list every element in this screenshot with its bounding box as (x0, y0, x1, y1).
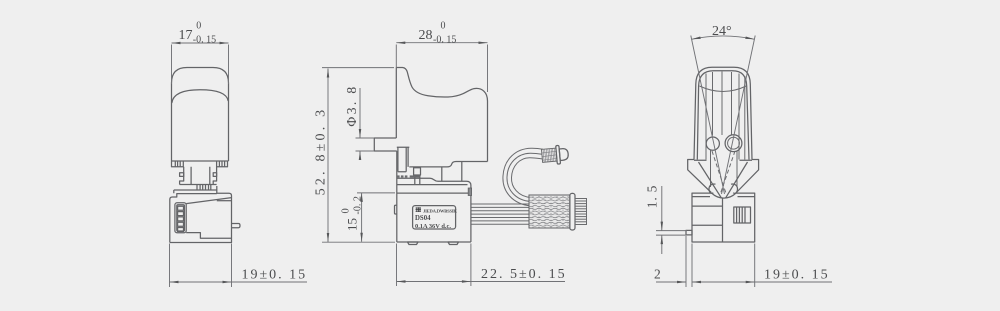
dim 52.8/15 extension bottom (322, 241, 395, 243)
svg-text:19±0. 15: 19±0. 15 (242, 268, 308, 283)
svg-text:24°: 24° (712, 24, 732, 39)
verticals under strip (415, 178, 420, 185)
small connector tip (559, 148, 568, 160)
inner sag arc (700, 86, 747, 92)
trigger left face (395, 68, 397, 139)
dim 15 ext top (357, 192, 395, 194)
trigger serration right block (217, 161, 228, 167)
trigger outline (left view) (172, 68, 229, 162)
body center divider (722, 198, 724, 242)
label logo block (416, 207, 422, 212)
dim 19 left ext lines (170, 244, 232, 288)
body right edge (470, 186, 472, 243)
small pocket box (414, 168, 421, 175)
dim 15 line (361, 193, 363, 242)
body second top line (692, 196, 755, 198)
dim 19 left arrows (170, 281, 232, 284)
body inner second line (217, 200, 232, 202)
trigger bottom edge (409, 162, 487, 167)
svg-text:0: 0 (441, 21, 446, 32)
dim 22.5 ext lines (397, 244, 471, 287)
dim 1.5 line (661, 186, 663, 254)
right clip dark tab (468, 188, 471, 196)
neck side walls (711, 151, 738, 188)
foot right (448, 242, 459, 245)
stem base plate (174, 185, 217, 191)
svg-text:1. 5: 1. 5 (645, 185, 660, 208)
wire eyelet right outer (725, 135, 742, 152)
svg-text:19±0. 15: 19±0. 15 (764, 268, 830, 283)
lid top line (397, 178, 471, 185)
body outline (left view) (170, 186, 232, 243)
right wing (736, 160, 758, 193)
rib dashes (397, 175, 400, 177)
bottom L-step (186, 233, 231, 239)
wire eyelet right inner (728, 137, 740, 149)
small connector flange (556, 145, 561, 164)
svg-text:22. 5±0. 15: 22. 5±0. 15 (481, 267, 567, 282)
connector inner column (177, 205, 185, 231)
pin comb (575, 199, 587, 225)
connector pins (178, 206, 184, 231)
left wing (688, 160, 712, 193)
hidden dashed left (712, 151, 726, 194)
right side tab (232, 224, 241, 228)
pocket U channel (397, 147, 410, 172)
dim 28 extension lines (396, 45, 487, 93)
LEFTVIEW (170, 68, 240, 243)
svg-text:2: 2 (654, 267, 661, 282)
dim 52.8 arrows (327, 69, 330, 243)
svg-text:0: 0 (196, 21, 201, 32)
stem left wall with notch (180, 167, 184, 185)
shelf lines (694, 159, 752, 161)
left small tab (686, 230, 692, 235)
sleeve end cap (570, 193, 575, 230)
small connector sleeve (541, 148, 557, 162)
dim 28 arrows (396, 41, 487, 44)
dim 15 arrows (360, 193, 363, 242)
svg-text:0: 0 (341, 208, 352, 213)
dim 17 extension lines (172, 45, 229, 85)
label plate (413, 206, 456, 229)
diagonal ledge line (186, 198, 231, 204)
dim 15 text (341, 196, 364, 231)
svg-text:Φ3. 8: Φ3. 8 (344, 84, 359, 126)
lid second line (397, 184, 468, 186)
ratchet ribbed box (197, 185, 211, 191)
dim 19 right ext lines (692, 244, 755, 288)
step verticals under trigger (442, 162, 462, 182)
body row lines (692, 206, 723, 225)
dim 19 right line (692, 281, 832, 283)
svg-text:-0. 2: -0. 2 (353, 196, 364, 214)
trigger inner arc (172, 90, 228, 103)
body bottom (397, 241, 471, 243)
wire loop strokes (503, 148, 543, 206)
dim 1.5 ext lines (656, 231, 687, 236)
dim phi3.8 arrows (359, 129, 362, 160)
svg-text:0.1A 36V d.c.: 0.1A 36V d.c. (415, 223, 451, 230)
dim 28 line (396, 42, 487, 44)
dim 19 right arrows (692, 281, 755, 284)
body left face (396, 151, 398, 242)
svg-text:-0. 15: -0. 15 (193, 35, 216, 46)
dim 2 arrow (677, 281, 686, 284)
dim 22.5 arrows (397, 280, 471, 283)
trigger outer shell (694, 67, 752, 159)
left clip (395, 205, 397, 214)
svg-text:-0. 15: -0. 15 (433, 35, 456, 46)
dim 22.5 line (397, 281, 566, 283)
spring V left (699, 162, 722, 198)
wire eyelet left (706, 137, 719, 150)
MIDVIEW (374, 68, 586, 245)
dim 19 left line (170, 281, 308, 283)
dim phi3.8 ext lines (356, 138, 375, 151)
trigger inner shell (697, 71, 749, 160)
hook left (709, 184, 716, 193)
trigger serration left block (172, 161, 184, 167)
dim 2 ext line (685, 236, 687, 287)
svg-text:DS04: DS04 (415, 215, 431, 222)
boss cylinder (374, 138, 397, 151)
hook right (731, 184, 738, 193)
stem right wall with notch (213, 167, 216, 185)
RIGHTVIEW (686, 67, 759, 242)
dim 2 line (656, 281, 686, 283)
svg-text:52. 8±0. 3: 52. 8±0. 3 (314, 107, 329, 196)
dim phi3.8 line (359, 88, 361, 159)
dim 1.5 arrows (661, 222, 664, 245)
body top separation (397, 192, 471, 194)
spring V right (726, 162, 748, 198)
dim 24 arrows (691, 37, 754, 40)
svg-text:JIEDA.DWBSSIK: JIEDA.DWBSSIK (423, 208, 457, 213)
stem inner verticals (191, 167, 210, 185)
hidden dashed right (720, 151, 735, 194)
grip ribs (706, 72, 745, 160)
ribbed window (734, 207, 751, 223)
svg-text:15: 15 (345, 218, 360, 231)
dim 24 ext slant lines (691, 36, 755, 195)
trigger profile top curve (396, 68, 487, 162)
svg-text:28: 28 (419, 28, 433, 43)
dim 17 arrows (172, 42, 229, 45)
DIMS (170, 21, 833, 287)
dim 52.8 line (327, 69, 329, 243)
wire bundle (471, 204, 529, 224)
dim 24 arc (691, 36, 754, 39)
braided sleeve (529, 195, 570, 228)
foot left (408, 242, 419, 245)
connector housing (175, 203, 186, 233)
body outline with neck notch (692, 193, 755, 242)
dim 17 line (172, 42, 229, 44)
svg-text:17: 17 (179, 28, 193, 43)
dim 52.8 extension top (322, 67, 394, 69)
pocket dark strip (410, 175, 421, 177)
